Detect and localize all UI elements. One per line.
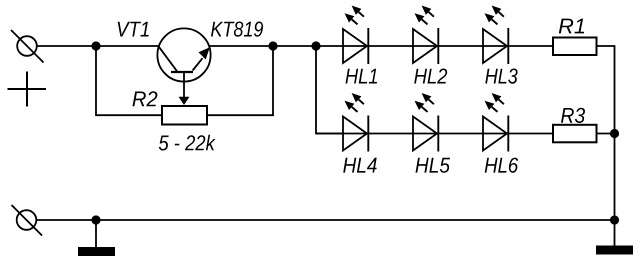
wire: R1 to right rail corner: [597, 46, 615, 220]
label R2: [133, 91, 158, 106]
label HL1: [346, 69, 378, 84]
ground left: [78, 220, 115, 256]
wire: emitter rail through HL1-HL3 to R1: [210, 45, 553, 47]
wire: base lead to R2 wiper: [183, 72, 185, 98]
R2 wiper arrow: [179, 97, 190, 105]
label HL4: [343, 158, 377, 173]
LED HL4: [343, 93, 368, 152]
plus polarity mark: [8, 72, 47, 107]
resistor R3: [553, 125, 597, 143]
label HL5: [416, 158, 451, 173]
junction: right rail / bottom rail node: [610, 215, 619, 224]
transistor VT1 KT819: [157, 28, 210, 81]
wire: R2 right up to emitter rail: [207, 46, 273, 115]
junction: LED-row split node: [311, 41, 320, 50]
label KT819: [211, 22, 263, 37]
label VT1: [118, 22, 149, 37]
LED HL1: [343, 6, 368, 65]
junction: emitter / R2-right node: [268, 41, 277, 50]
potentiometer R2 body: [162, 106, 207, 125]
wire: drop to second LED row: [316, 46, 343, 134]
wire: R3 to right rail: [597, 133, 615, 135]
LED HL3: [483, 6, 508, 65]
wire: input node down to R2 left: [96, 46, 162, 115]
label HL2: [414, 69, 447, 84]
wire: second row rail through HL4-HL6 to R3: [316, 133, 553, 135]
ground right: [596, 220, 633, 255]
terminal X2 (negative input): [12, 205, 43, 236]
label R3: [561, 108, 585, 123]
LED HL2: [413, 6, 438, 65]
junction: left ground node: [91, 215, 100, 224]
terminal X1 (positive input): [11, 30, 44, 63]
junction: R3 / right rail node: [610, 129, 619, 138]
LED HL6: [483, 93, 508, 152]
junction: input / R2-left node: [91, 41, 100, 50]
wire: input to collector: [37, 45, 159, 47]
label 5 - 22k: [159, 135, 216, 151]
label R1: [559, 19, 584, 34]
LED HL5: [413, 93, 438, 152]
resistor R1: [553, 38, 597, 56]
label HL3: [485, 69, 517, 84]
label HL6: [485, 158, 519, 173]
wire: bottom rail: [36, 219, 614, 221]
